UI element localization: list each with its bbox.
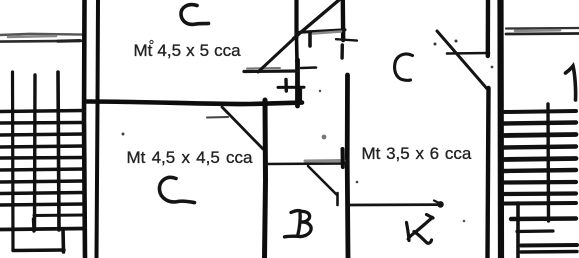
flue box top line — [278, 86, 304, 89]
right stair rungs — [504, 111, 576, 112]
right wall outer — [497, 0, 504, 258]
entry wall upper segment — [294, 0, 298, 37]
landing bottom line — [13, 248, 64, 252]
faint second line under wall — [207, 116, 228, 119]
B door swing — [308, 166, 337, 195]
window right lower line — [506, 32, 579, 35]
right stair stringer center — [546, 104, 550, 221]
right unit door tick — [447, 52, 489, 55]
window left lower line — [0, 39, 83, 42]
K arrow head dot — [437, 201, 444, 208]
K arrow line — [350, 203, 438, 206]
B/K wall — [345, 75, 351, 258]
right stair partial rung y231 — [517, 229, 553, 233]
window left dark segment — [58, 39, 80, 43]
B door leaf (gray) — [305, 159, 344, 163]
stub below lintel — [308, 32, 312, 46]
room C top-left letter — [181, 5, 209, 25]
flue box right side — [299, 88, 302, 101]
stair stringer 3 — [58, 72, 59, 230]
right unit door swing — [437, 31, 489, 91]
top-center jamb stub — [340, 45, 344, 58]
B door jamb — [341, 149, 345, 167]
degree mark after Mt — [150, 40, 153, 43]
bottom wall of top-left room — [87, 102, 302, 105]
B door horizontal — [266, 162, 347, 165]
landing middle stub — [32, 219, 36, 231]
flue box cross stub — [284, 80, 288, 92]
door swing lower-left room — [222, 107, 263, 149]
text labels — [134, 41, 241, 61]
lintel — [296, 30, 345, 33]
entry door threshold — [244, 69, 298, 73]
entry wall middle segment — [295, 37, 299, 62]
window right smudge — [515, 29, 560, 32]
K arrow head wing — [434, 201, 441, 205]
right wall inner upper — [486, 0, 491, 56]
letter C lower-left — [159, 177, 194, 202]
right wall inner lower — [488, 88, 489, 258]
window left smudge — [8, 36, 56, 37]
wall between lower C room and B — [265, 100, 266, 258]
threshold tick right of wall — [301, 66, 316, 69]
wall left inner — [97, 0, 99, 258]
letter N partial right edge — [566, 66, 576, 100]
letter B — [285, 211, 312, 237]
stair rungs left — [0, 111, 84, 112]
lintel gray shadow — [313, 32, 341, 34]
entry wall lower segment — [295, 60, 300, 106]
landing right post — [61, 229, 65, 252]
entry door swing — [258, 38, 295, 73]
letter K — [407, 215, 434, 244]
window right upper line — [506, 27, 579, 30]
big diagonal — [294, 0, 340, 39]
stair stringer 1 — [11, 72, 15, 250]
wall left outer — [84, 0, 85, 258]
window left upper line — [0, 34, 83, 35]
stair stringer 2 — [33, 75, 37, 230]
top-center right jamb wall — [341, 0, 346, 40]
B door swing end stub — [336, 193, 339, 205]
letter C middle — [395, 54, 413, 80]
tick near x345 — [336, 39, 357, 40]
entry door leaf (gray) — [247, 67, 280, 70]
right stair stringer lower-left — [516, 203, 520, 258]
